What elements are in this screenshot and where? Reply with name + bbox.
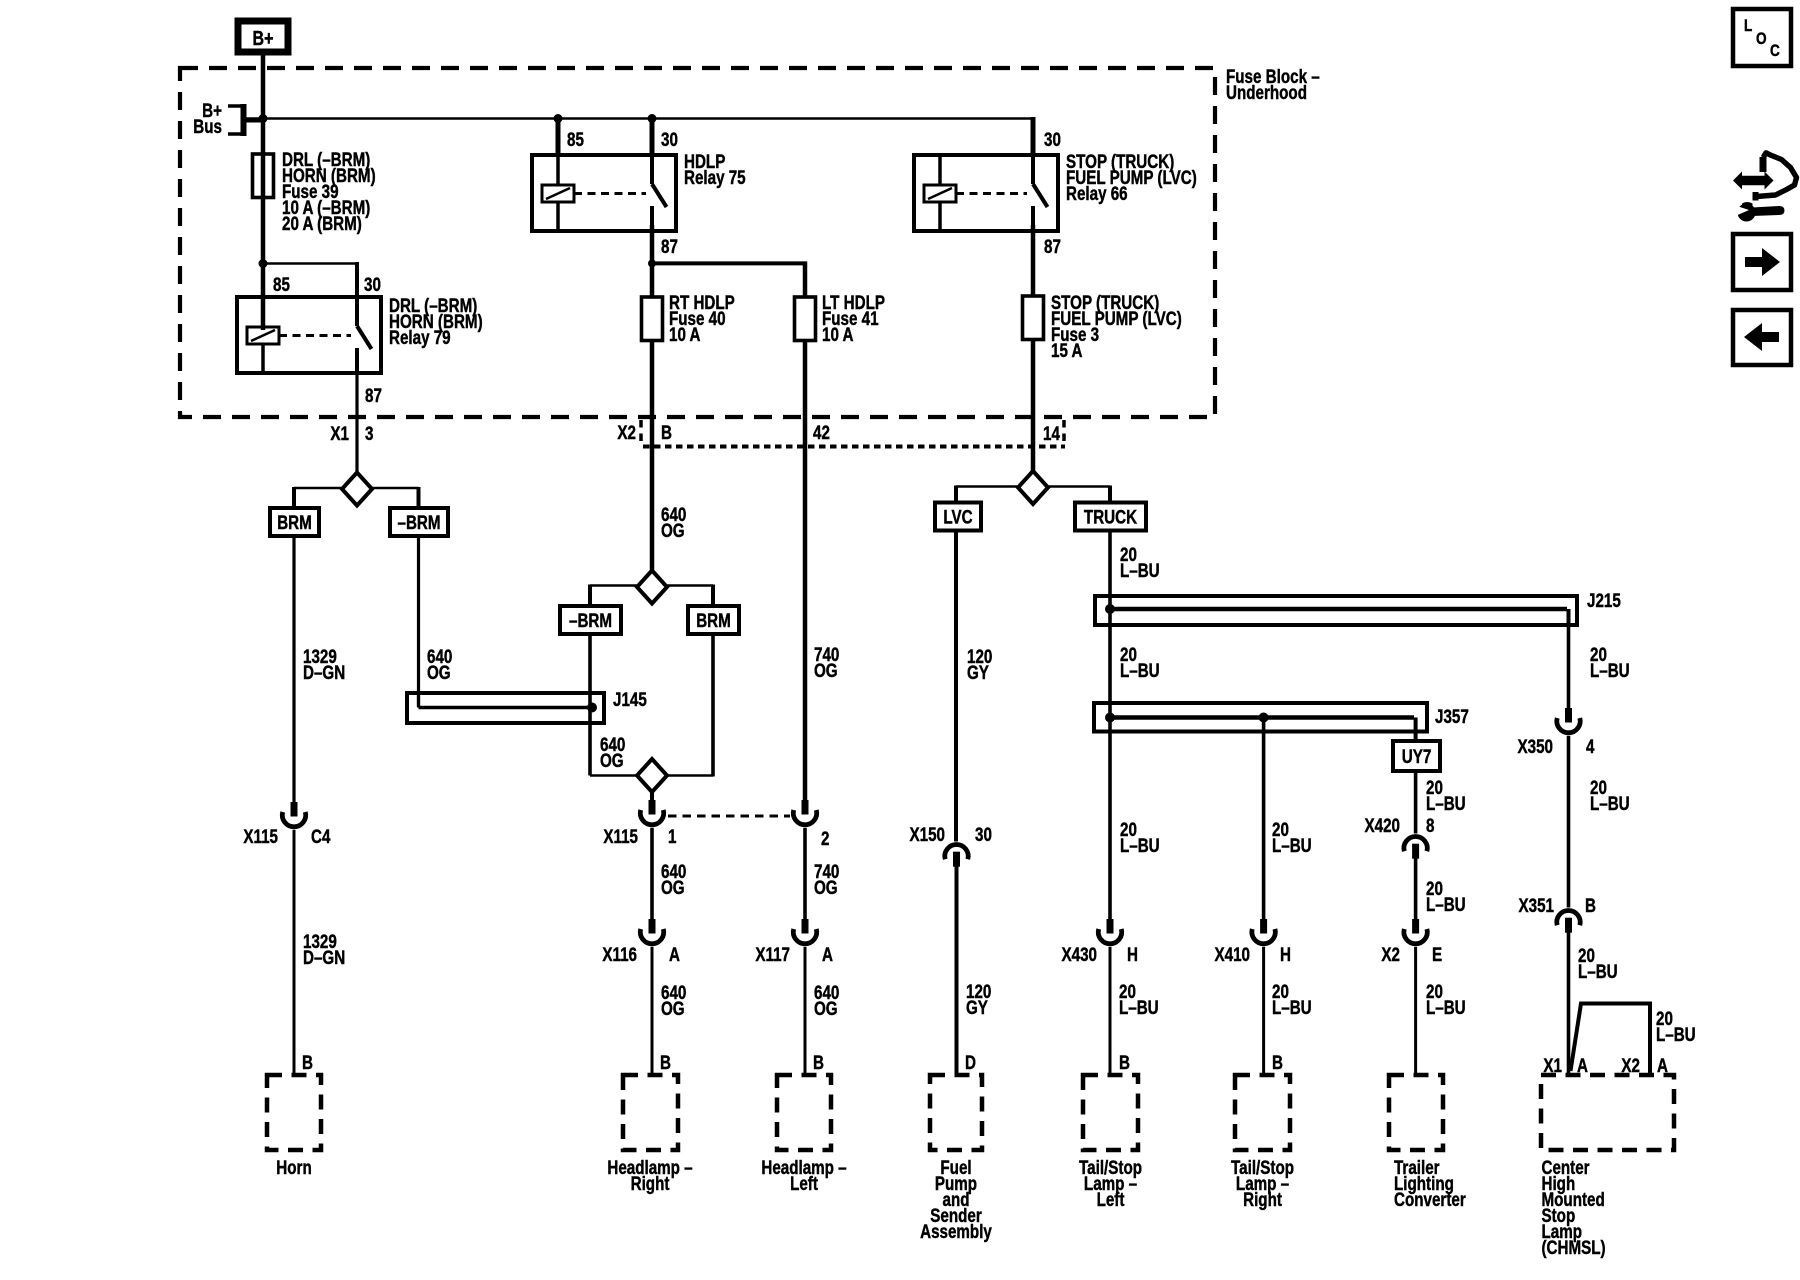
splice diamond 2 (headlamp)	[637, 759, 667, 792]
net label box LVC	[935, 503, 981, 531]
svg-text:Right: Right	[631, 1172, 670, 1194]
icon: service tool (double arrow)	[1733, 172, 1774, 190]
svg-text:B: B	[660, 1051, 671, 1073]
svg-text:X2: X2	[1381, 943, 1400, 965]
svg-text:J215: J215	[1587, 589, 1621, 611]
icon: forward arrow	[1745, 248, 1780, 276]
svg-text:L: L	[1744, 17, 1752, 36]
svg-text:X115: X115	[243, 825, 278, 847]
wire: J357 into UY7	[1414, 732, 1418, 742]
load box Headlamp Left	[777, 1075, 831, 1150]
svg-text:OG: OG	[661, 519, 685, 541]
connector X420 pin 8	[1404, 836, 1427, 851]
svg-text:Relay 75: Relay 75	[684, 166, 746, 188]
fuse block underhood dashed border	[180, 68, 1215, 417]
svg-text:B: B	[1272, 1051, 1283, 1073]
svg-text:X410: X410	[1215, 943, 1250, 965]
load box Tail/Stop Lamp Right	[1235, 1075, 1290, 1150]
splice diamond LVC-TRUCK	[1018, 471, 1048, 504]
svg-text:H: H	[1280, 943, 1291, 965]
wire: X1 splice left branch	[294, 487, 342, 490]
svg-text:87: 87	[1044, 235, 1061, 257]
svg-text:8: 8	[1426, 814, 1435, 836]
fuse F40 RT HDLP	[642, 297, 663, 341]
svg-text:L–BU: L–BU	[1578, 960, 1618, 982]
wire: splice to BRM mid	[667, 584, 713, 587]
splice diamond below X1	[342, 473, 372, 506]
wire: J215 to X350	[1567, 625, 1571, 708]
wire: relay75 pin30 feed	[650, 117, 655, 155]
icon: back arrow	[1744, 323, 1779, 351]
svg-text:85: 85	[567, 128, 584, 150]
svg-text:OG: OG	[814, 659, 838, 681]
splice diamond headlamp feed	[637, 571, 667, 604]
junction dot fuse39/relay79	[259, 259, 268, 268]
load box Headlamp Right	[623, 1075, 678, 1150]
svg-text:LVC: LVC	[943, 506, 972, 528]
wire: branch to fuse41	[652, 261, 805, 265]
svg-text:C: C	[1770, 42, 1780, 61]
svg-text:X430: X430	[1062, 943, 1097, 965]
svg-text:L–BU: L–BU	[1120, 659, 1160, 681]
icon: LOC box	[1733, 9, 1791, 66]
wire: trailer lead	[1414, 947, 1417, 1075]
splice J357 box	[1094, 703, 1427, 732]
wire: UY7 to X420	[1414, 771, 1418, 834]
load box Fuel Pump	[930, 1075, 982, 1150]
svg-text:D: D	[965, 1051, 976, 1073]
svg-text:O: O	[1756, 30, 1767, 49]
wire: fuse3 output	[1031, 340, 1036, 472]
svg-text:30: 30	[1044, 128, 1061, 150]
svg-text:B: B	[302, 1051, 313, 1073]
svg-text:20 A (BRM): 20 A (BRM)	[282, 212, 362, 234]
svg-text:L–BU: L–BU	[1656, 1023, 1696, 1045]
svg-text:OG: OG	[427, 661, 451, 683]
wire: chmsl jumper X1A to X2A	[1571, 1004, 1651, 1076]
wire: tail right lead	[1262, 947, 1265, 1075]
svg-text:30: 30	[364, 273, 381, 295]
svg-text:30: 30	[975, 823, 992, 845]
wire: fuse41 output	[803, 340, 808, 800]
wire: lt headlamp 740 below X115	[803, 828, 807, 919]
svg-text:GY: GY	[966, 996, 988, 1018]
connector X115 dashed link	[668, 815, 790, 818]
svg-text:Underhood: Underhood	[1226, 81, 1307, 103]
wire: B+ feed into fuse block	[261, 52, 266, 330]
junction dot bus at B+ feed	[259, 114, 268, 123]
wire: relay75 87 down to branch	[650, 225, 655, 297]
wire: fuel pump 120 GY	[954, 531, 958, 842]
junction dot J215	[1105, 604, 1115, 614]
wire: drop to fuse41	[803, 261, 808, 297]
relay 75 HDLP	[532, 155, 676, 231]
wire: splice2 left link	[590, 774, 637, 777]
svg-text:D–GN: D–GN	[303, 661, 345, 683]
svg-text:BRM: BRM	[696, 609, 731, 631]
svg-text:L–BU: L–BU	[1426, 996, 1466, 1018]
connector X117 pin A	[802, 919, 809, 934]
svg-text:Relay 79: Relay 79	[389, 326, 451, 348]
wire: -BRM drop to J145	[417, 536, 420, 706]
icon: back arrow box	[1733, 310, 1791, 365]
wire: -BRM mid down through J145	[588, 634, 592, 776]
connector X351 pin B	[1557, 910, 1580, 925]
connector X2 pin E	[1412, 919, 1419, 934]
junction dot J357 left	[1105, 713, 1115, 723]
svg-text:GY: GY	[967, 661, 989, 683]
svg-text:L–BU: L–BU	[1590, 792, 1630, 814]
wire: lt headlamp lead	[804, 947, 807, 1075]
connector X2 tick right	[1062, 420, 1066, 446]
fuse F41 LT HDLP	[795, 297, 816, 341]
svg-text:D–GN: D–GN	[303, 946, 345, 968]
junction dot J357 mid	[1259, 713, 1269, 723]
svg-text:X115: X115	[603, 825, 638, 847]
svg-text:10 A: 10 A	[822, 323, 854, 345]
svg-text:E: E	[1432, 943, 1442, 965]
wire: relay75 pin85 feed	[556, 117, 561, 155]
load box Trailer Lighting Converter	[1389, 1075, 1443, 1150]
svg-text:X350: X350	[1518, 735, 1553, 757]
svg-text:–BRM: –BRM	[397, 511, 440, 533]
wire: bus elbow to relay66 pin30	[1031, 117, 1036, 155]
svg-text:OG: OG	[814, 997, 838, 1019]
net label box TRUCK	[1075, 503, 1146, 531]
svg-text:1: 1	[668, 825, 677, 847]
wire: fuse40 output	[650, 340, 655, 570]
svg-text:X117: X117	[755, 943, 790, 965]
svg-text:X150: X150	[910, 823, 945, 845]
svg-text:H: H	[1127, 943, 1138, 965]
net label box UY7	[1393, 741, 1440, 771]
wire: X1 splice right branch	[372, 487, 419, 490]
icon: forward arrow box	[1733, 234, 1791, 290]
wire: splice2 to X115-1	[650, 792, 654, 800]
svg-text:L–BU: L–BU	[1120, 559, 1160, 581]
load box Horn	[267, 1075, 321, 1150]
svg-text:C4: C4	[311, 825, 331, 847]
icon: service tool (wrench)	[1738, 204, 1756, 222]
svg-text:L–BU: L–BU	[1426, 792, 1466, 814]
svg-text:B+: B+	[253, 27, 274, 49]
svg-text:A: A	[669, 943, 680, 965]
svg-text:B: B	[1585, 894, 1596, 916]
connector X410 pin H	[1260, 919, 1267, 934]
svg-text:J357: J357	[1435, 705, 1469, 727]
svg-text:L–BU: L–BU	[1590, 659, 1630, 681]
net label box -BRM (mid)	[560, 606, 621, 634]
svg-text:A: A	[822, 943, 833, 965]
junction dot J145	[587, 703, 597, 713]
svg-text:X1: X1	[330, 422, 349, 444]
wire: rt headlamp lead	[651, 947, 654, 1075]
wire: link fuse39 to relay79 pin30	[263, 262, 357, 265]
svg-text:B: B	[1119, 1051, 1130, 1073]
wire: B+ bus horizontal	[246, 117, 1033, 119]
svg-text:(CHMSL): (CHMSL)	[1542, 1236, 1606, 1258]
svg-text:L–BU: L–BU	[1272, 996, 1312, 1018]
svg-text:4: 4	[1586, 735, 1595, 757]
svg-text:Converter: Converter	[1394, 1188, 1466, 1210]
svg-text:OG: OG	[661, 997, 685, 1019]
wire: splice to TRUCK	[1048, 485, 1110, 488]
svg-text:L–BU: L–BU	[1119, 996, 1159, 1018]
junction dot bus at relay75 pin30	[648, 114, 657, 123]
wire: horn feed 1329	[292, 536, 295, 802]
svg-text:L–BU: L–BU	[1426, 893, 1466, 915]
svg-text:L–BU: L–BU	[1272, 834, 1312, 856]
svg-text:Relay 66: Relay 66	[1066, 182, 1128, 204]
wire: BRM mid down to splice2	[711, 634, 715, 777]
wire: splice to -BRM mid	[590, 584, 637, 587]
connector X150 pin 30	[945, 844, 968, 859]
svg-text:X420: X420	[1365, 814, 1400, 836]
svg-text:–BRM: –BRM	[569, 609, 612, 631]
fuse F39 DRL/HORN	[253, 154, 274, 198]
svg-text:B: B	[813, 1051, 824, 1073]
junction dot bus at relay75 pin85	[554, 114, 563, 123]
wire: relay79 pin30 drop	[355, 262, 359, 297]
splice J145 box	[407, 693, 604, 723]
relay 66 STOP/FUEL PUMP	[914, 155, 1058, 231]
net label box -BRM (drl)	[390, 508, 448, 536]
svg-text:TRUCK: TRUCK	[1084, 506, 1138, 528]
svg-text:3: 3	[365, 422, 373, 444]
load box Tail/Stop Lamp Left	[1083, 1075, 1138, 1150]
svg-text:J145: J145	[613, 688, 647, 710]
svg-text:85: 85	[273, 273, 290, 295]
net label box BRM (mid)	[688, 606, 739, 634]
svg-text:87: 87	[661, 235, 678, 257]
svg-text:B: B	[661, 421, 672, 443]
relay 79 DRL/HORN	[237, 297, 381, 373]
wire: relay66 87 down to fuse3	[1031, 225, 1036, 296]
connector X116 pin A	[649, 919, 656, 934]
wire: X350 to X351	[1567, 736, 1571, 908]
net label box BRM (horn)	[270, 508, 319, 536]
splice J215 box	[1095, 596, 1577, 625]
svg-text:OG: OG	[600, 749, 624, 771]
svg-text:30: 30	[661, 128, 678, 150]
svg-text:Assembly: Assembly	[920, 1220, 992, 1242]
connector X2 tick left	[639, 420, 643, 446]
svg-text:14: 14	[1043, 422, 1060, 444]
svg-text:Left: Left	[1097, 1188, 1125, 1210]
load box CHMSL	[1541, 1075, 1674, 1150]
svg-text:42: 42	[813, 421, 830, 443]
connector X115 pin 1	[649, 800, 656, 815]
wire: tail right drop from J357	[1262, 718, 1266, 920]
svg-text:Right: Right	[1243, 1188, 1282, 1210]
wire: chmsl X1-A lead	[1567, 932, 1571, 1075]
svg-text:X116: X116	[602, 943, 637, 965]
connector X430 pin H	[1107, 919, 1114, 934]
wire: relay79 output 87 to X1	[355, 373, 358, 473]
svg-text:87: 87	[365, 384, 382, 406]
svg-text:2: 2	[821, 827, 829, 849]
svg-text:Bus: Bus	[193, 115, 222, 137]
svg-text:OG: OG	[814, 876, 838, 898]
connector X350 pin 4	[1565, 708, 1572, 723]
svg-text:Left: Left	[790, 1172, 818, 1194]
B+ Bus bracket tap	[228, 104, 246, 108]
fuse F3 STOP/FUEL PUMP	[1023, 296, 1044, 340]
svg-text:X2: X2	[617, 421, 636, 443]
junction dot 87 branch	[648, 259, 656, 267]
wire: horn lead below X115	[293, 830, 296, 1075]
wire: splice to LVC	[956, 485, 1018, 488]
svg-text:Horn: Horn	[276, 1156, 311, 1178]
wire: fuel pump lead	[955, 866, 959, 1075]
wire: X420 to X2E	[1414, 858, 1418, 919]
wire: truck 20 L-BU feed	[1108, 531, 1112, 920]
wire: tail left lead	[1109, 947, 1112, 1075]
svg-text:OG: OG	[661, 876, 685, 898]
svg-text:L–BU: L–BU	[1120, 834, 1160, 856]
svg-text:BRM: BRM	[277, 511, 312, 533]
svg-text:X351: X351	[1519, 894, 1555, 916]
wire: rt headlamp 640 below X115	[650, 828, 654, 919]
svg-text:10 A: 10 A	[669, 323, 701, 345]
svg-text:15 A: 15 A	[1051, 339, 1083, 361]
power symbol B+	[238, 21, 288, 52]
svg-text:UY7: UY7	[1402, 745, 1432, 767]
connector X2 dotted boundary	[643, 445, 1065, 449]
icon: service tool (pointer outline)	[1760, 157, 1767, 172]
connector X115 pin C4	[291, 802, 298, 817]
connector X115 pin 2	[802, 800, 809, 815]
